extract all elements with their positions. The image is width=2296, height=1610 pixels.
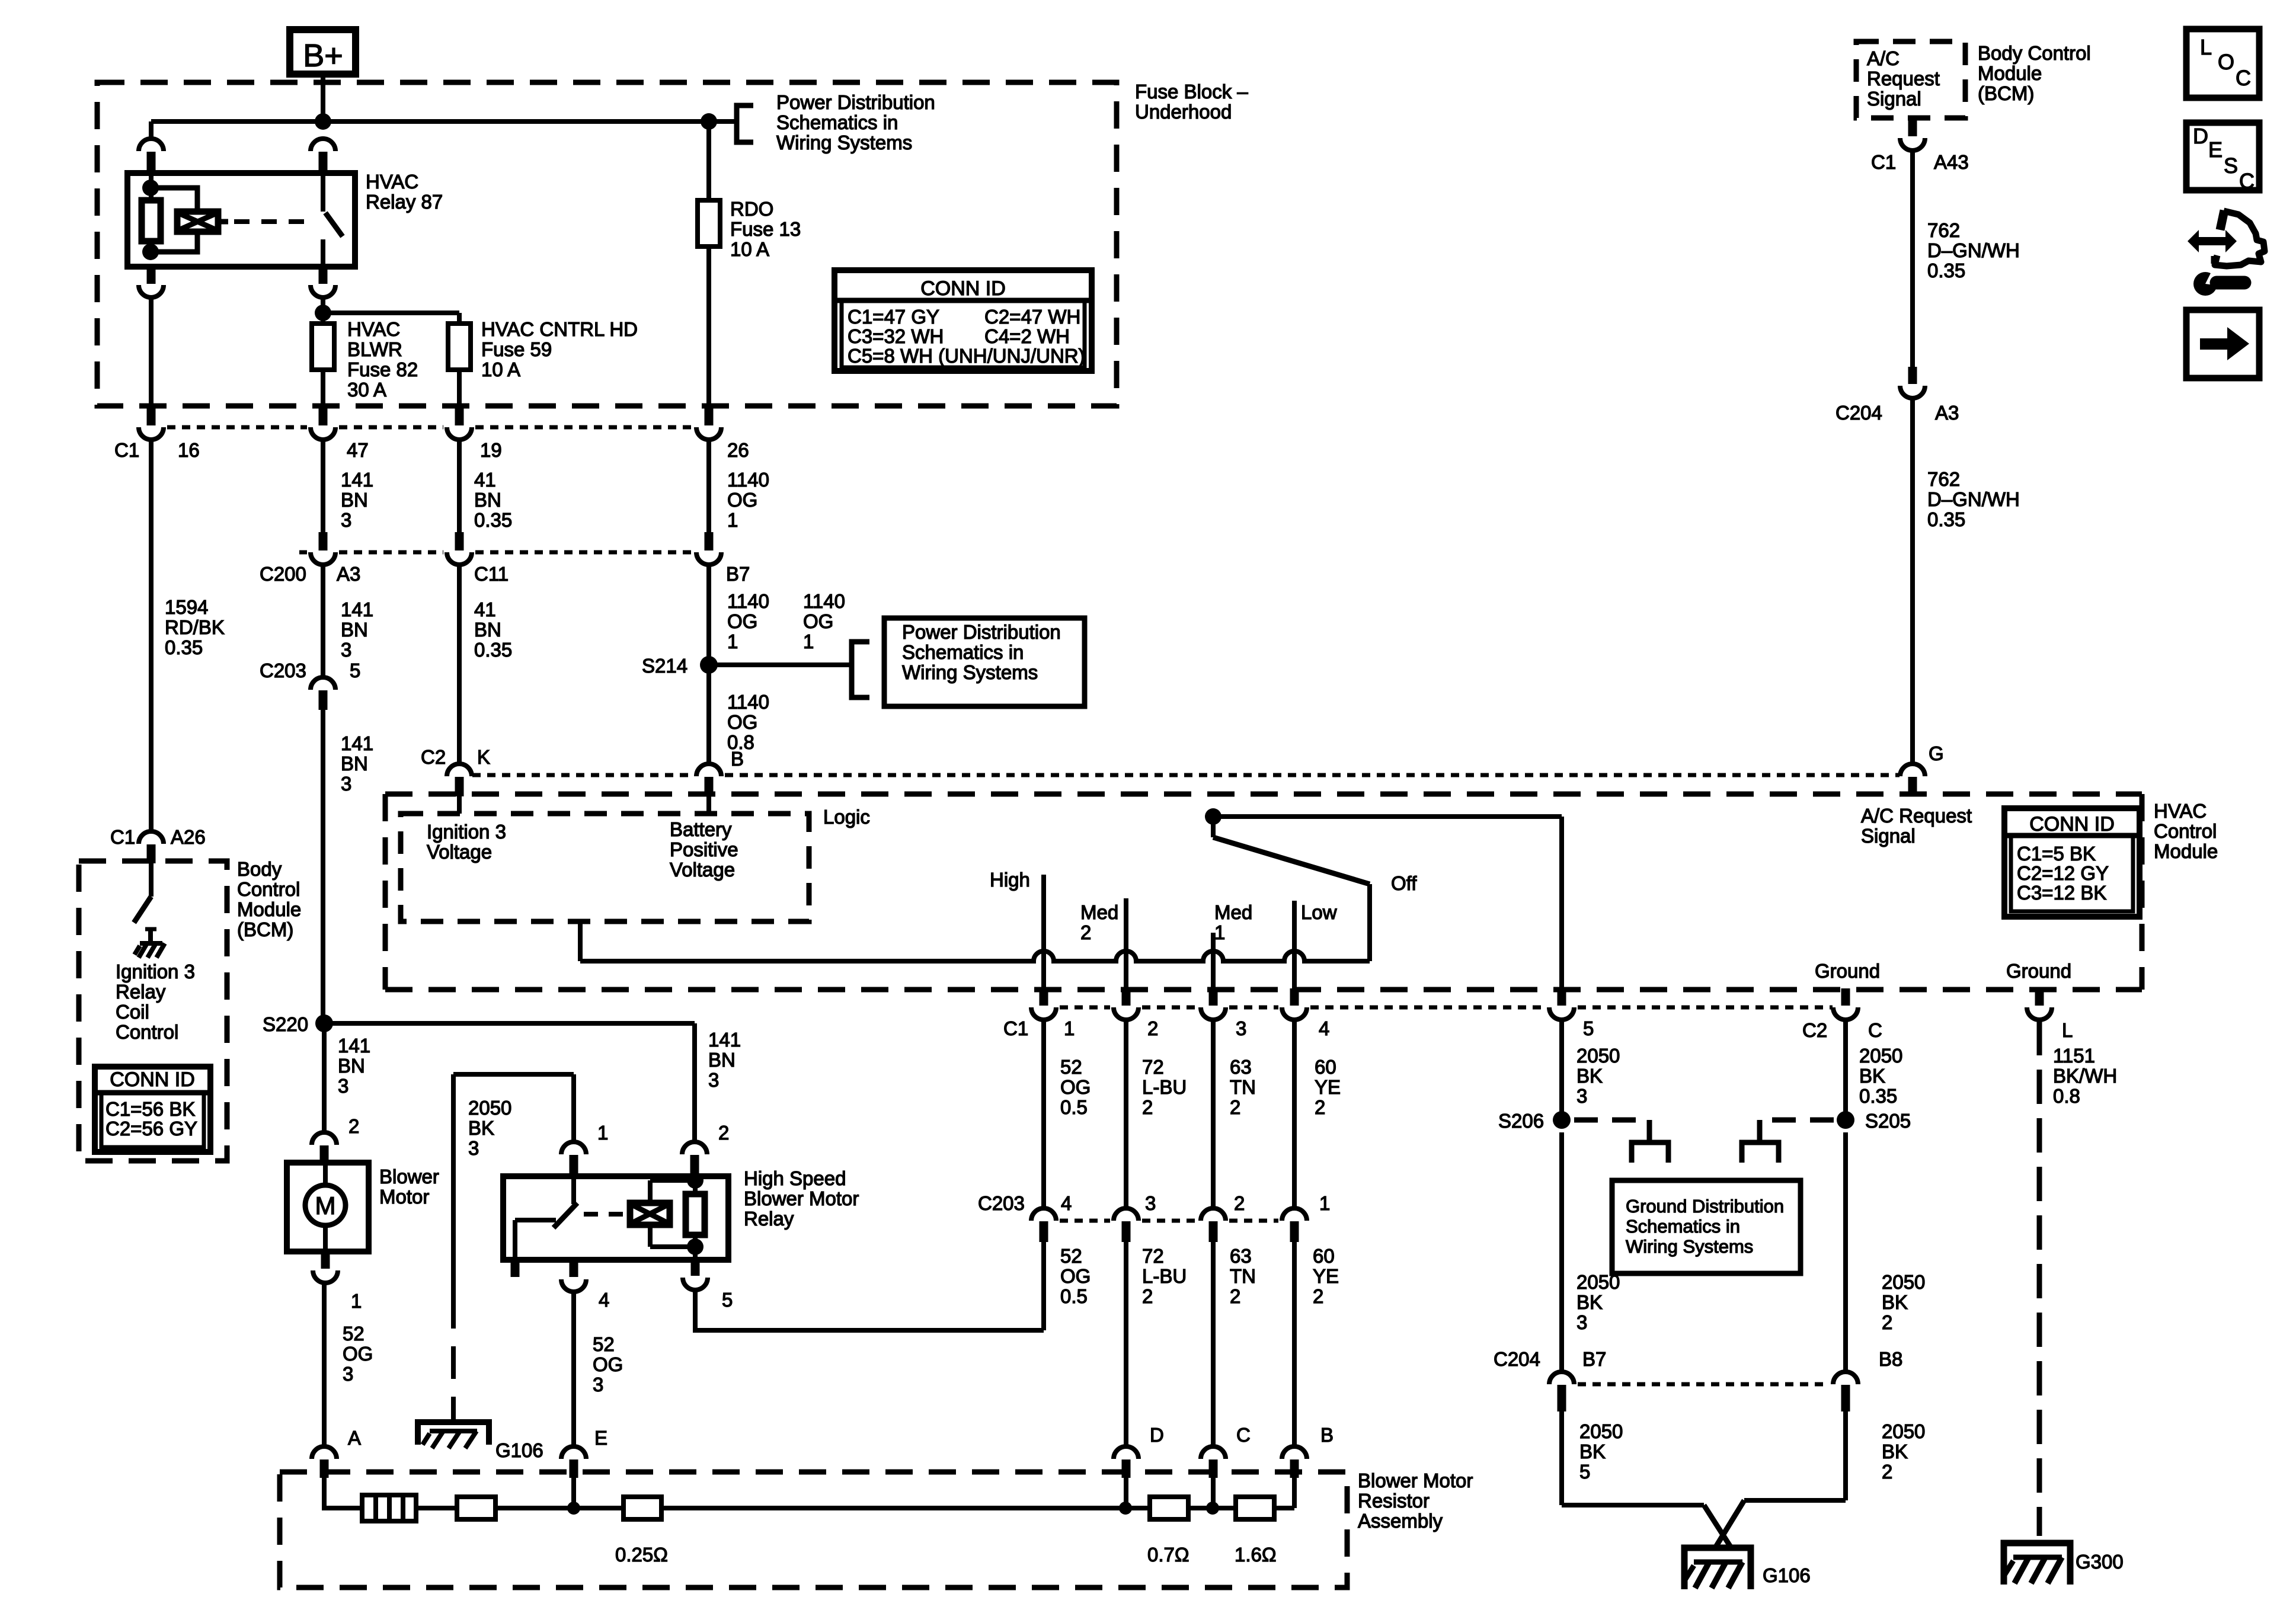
svg-text:C11: C11 (474, 563, 509, 585)
svg-text:1140: 1140 (727, 469, 769, 491)
svg-text:3: 3 (708, 1069, 719, 1091)
svg-text:Ground: Ground (1815, 960, 1880, 982)
svg-text:C2=12 GY: C2=12 GY (2017, 862, 2109, 884)
svg-text:2050: 2050 (1576, 1271, 1620, 1293)
svg-text:Fuse 59: Fuse 59 (481, 338, 552, 360)
svg-text:Signal: Signal (1861, 825, 1916, 847)
svg-text:A26: A26 (171, 826, 206, 848)
svg-text:C2=56 GY: C2=56 GY (105, 1118, 197, 1140)
svg-text:A3: A3 (1935, 402, 1959, 424)
svg-text:1: 1 (803, 630, 814, 652)
svg-text:Coil: Coil (116, 1001, 149, 1023)
svg-text:HVAC: HVAC (347, 318, 400, 340)
svg-text:L-BU: L-BU (1142, 1265, 1187, 1287)
svg-text:HVAC CNTRL HD: HVAC CNTRL HD (481, 318, 638, 340)
svg-text:72: 72 (1142, 1245, 1164, 1267)
svg-text:C2=47 WH: C2=47 WH (984, 306, 1080, 328)
svg-text:C1=56 BK: C1=56 BK (105, 1098, 195, 1120)
svg-text:10 A: 10 A (730, 238, 769, 260)
svg-text:C5=8 WH (UNH/UNJ/UNR): C5=8 WH (UNH/UNJ/UNR) (848, 345, 1085, 367)
svg-text:C3=32 WH: C3=32 WH (848, 325, 944, 347)
svg-text:C1=5 BK: C1=5 BK (2017, 843, 2096, 865)
svg-text:O: O (2218, 50, 2234, 74)
svg-text:Voltage: Voltage (427, 841, 492, 863)
svg-text:Body: Body (237, 858, 282, 880)
svg-text:S220: S220 (263, 1013, 308, 1035)
svg-text:C203: C203 (260, 660, 306, 681)
svg-text:(BCM): (BCM) (1978, 82, 2034, 104)
svg-text:Ignition 3: Ignition 3 (116, 961, 195, 982)
svg-text:Module: Module (2154, 840, 2218, 862)
svg-text:C1: C1 (114, 439, 139, 461)
svg-text:30 A: 30 A (347, 379, 386, 401)
svg-text:OG: OG (727, 711, 757, 733)
svg-text:D: D (2193, 124, 2208, 148)
svg-text:BN: BN (341, 489, 368, 511)
svg-text:CONN ID: CONN ID (2029, 813, 2115, 836)
svg-text:C203: C203 (978, 1192, 1025, 1214)
svg-text:BN: BN (341, 619, 368, 641)
svg-text:141: 141 (708, 1029, 741, 1051)
svg-text:5: 5 (1579, 1461, 1590, 1483)
svg-text:C4=2 WH: C4=2 WH (984, 325, 1070, 347)
svg-text:72: 72 (1142, 1056, 1164, 1078)
svg-text:60: 60 (1313, 1245, 1335, 1267)
svg-text:OG: OG (593, 1353, 623, 1375)
svg-text:141: 141 (338, 1035, 370, 1057)
svg-text:Power Distribution: Power Distribution (776, 91, 935, 113)
svg-text:5: 5 (722, 1289, 733, 1311)
svg-text:CONN ID: CONN ID (110, 1068, 195, 1091)
svg-text:Fuse 13: Fuse 13 (730, 218, 801, 240)
svg-text:2: 2 (348, 1115, 359, 1137)
svg-text:Wiring Systems: Wiring Systems (1626, 1236, 1753, 1257)
svg-text:S214: S214 (642, 655, 687, 677)
svg-text:3: 3 (593, 1374, 603, 1395)
svg-text:0.5: 0.5 (1060, 1096, 1088, 1118)
svg-text:BK: BK (1576, 1065, 1603, 1087)
svg-text:2: 2 (1315, 1096, 1325, 1118)
svg-text:762: 762 (1927, 468, 1960, 490)
svg-text:S205: S205 (1865, 1110, 1911, 1132)
svg-text:Schematics in: Schematics in (1626, 1216, 1740, 1237)
svg-text:2050: 2050 (1579, 1420, 1623, 1442)
svg-text:2050: 2050 (468, 1097, 511, 1119)
svg-text:0.35: 0.35 (1927, 260, 1965, 281)
svg-text:BN: BN (474, 489, 501, 511)
svg-text:BLWR: BLWR (347, 338, 402, 360)
svg-text:47: 47 (347, 439, 369, 461)
svg-text:Med: Med (1080, 901, 1118, 923)
svg-text:1: 1 (1319, 1192, 1330, 1214)
svg-text:2: 2 (1147, 1017, 1158, 1039)
svg-text:63: 63 (1230, 1056, 1252, 1078)
svg-text:OG: OG (727, 610, 757, 632)
svg-text:Module: Module (237, 898, 301, 920)
svg-text:Control: Control (237, 878, 300, 900)
svg-text:RDO: RDO (730, 198, 773, 220)
svg-text:2: 2 (718, 1122, 729, 1144)
svg-text:52: 52 (1060, 1056, 1082, 1078)
svg-text:1: 1 (597, 1122, 608, 1144)
svg-text:Blower: Blower (379, 1166, 439, 1188)
svg-text:41: 41 (474, 598, 496, 620)
svg-text:B8: B8 (1879, 1348, 1902, 1370)
svg-text:16: 16 (178, 439, 200, 461)
svg-text:52: 52 (343, 1323, 364, 1345)
svg-text:Schematics in: Schematics in (902, 641, 1024, 663)
svg-text:OG: OG (343, 1343, 373, 1365)
svg-text:0.35: 0.35 (165, 636, 203, 658)
svg-text:A/C Request: A/C Request (1861, 805, 1972, 827)
svg-text:C: C (2239, 169, 2255, 193)
svg-text:B7: B7 (1582, 1348, 1606, 1370)
svg-text:RD/BK: RD/BK (165, 616, 225, 638)
svg-text:2: 2 (1882, 1461, 1892, 1483)
svg-text:Voltage: Voltage (670, 859, 735, 881)
svg-text:1594: 1594 (165, 596, 208, 618)
svg-text:HVAC: HVAC (2154, 800, 2207, 822)
svg-text:OG: OG (1060, 1265, 1091, 1287)
svg-text:2: 2 (1230, 1096, 1240, 1118)
svg-text:A3: A3 (337, 563, 360, 585)
svg-text:3: 3 (1576, 1085, 1587, 1107)
svg-text:BK: BK (1576, 1291, 1603, 1313)
svg-text:S206: S206 (1498, 1110, 1544, 1132)
svg-text:2: 2 (1142, 1096, 1153, 1118)
svg-text:Body Control: Body Control (1978, 42, 2091, 64)
svg-text:D: D (1150, 1424, 1164, 1446)
svg-text:Request: Request (1867, 68, 1940, 89)
svg-text:Ground Distribution: Ground Distribution (1626, 1196, 1784, 1217)
svg-text:2: 2 (1080, 921, 1091, 943)
svg-text:4: 4 (1319, 1017, 1329, 1039)
svg-text:2050: 2050 (1882, 1271, 1925, 1293)
svg-text:3: 3 (341, 639, 351, 661)
svg-text:OG: OG (803, 610, 833, 632)
svg-text:S: S (2224, 153, 2238, 178)
svg-text:Wiring Systems: Wiring Systems (776, 132, 912, 153)
svg-text:OG: OG (727, 489, 757, 511)
svg-text:Fuse Block –: Fuse Block – (1135, 81, 1248, 103)
svg-text:D–GN/WH: D–GN/WH (1927, 239, 2020, 261)
svg-text:G: G (1929, 742, 1944, 764)
svg-text:63: 63 (1230, 1245, 1252, 1267)
svg-text:Assembly: Assembly (1358, 1510, 1443, 1532)
svg-text:0.25Ω: 0.25Ω (615, 1544, 668, 1566)
svg-text:Wiring Systems: Wiring Systems (902, 661, 1038, 683)
svg-text:1.6Ω: 1.6Ω (1235, 1544, 1277, 1566)
svg-text:A43: A43 (1934, 151, 1969, 173)
svg-text:Resistor: Resistor (1358, 1490, 1430, 1512)
svg-text:Relay: Relay (744, 1208, 794, 1230)
svg-text:C1: C1 (1003, 1017, 1028, 1039)
svg-text:1: 1 (1064, 1017, 1075, 1039)
svg-text:B: B (731, 748, 744, 770)
svg-text:C2: C2 (1802, 1019, 1827, 1041)
svg-text:1: 1 (727, 630, 738, 652)
svg-text:3: 3 (1236, 1017, 1246, 1039)
svg-text:4: 4 (1061, 1192, 1072, 1214)
svg-text:2050: 2050 (1882, 1420, 1925, 1442)
svg-text:Module: Module (1978, 62, 2042, 84)
svg-text:BN: BN (338, 1055, 365, 1077)
svg-text:1140: 1140 (727, 691, 769, 713)
svg-text:10 A: 10 A (481, 359, 520, 380)
svg-text:2: 2 (1142, 1285, 1153, 1307)
svg-text:C1=47 GY: C1=47 GY (848, 306, 939, 328)
svg-text:C1: C1 (1871, 151, 1896, 173)
svg-text:TN: TN (1230, 1265, 1256, 1287)
svg-text:Power Distribution: Power Distribution (902, 621, 1061, 643)
svg-text:3: 3 (468, 1137, 479, 1159)
svg-text:BK: BK (1882, 1441, 1908, 1462)
svg-text:Logic: Logic (823, 806, 870, 828)
svg-text:G106: G106 (1763, 1564, 1811, 1586)
svg-text:141: 141 (341, 732, 373, 754)
svg-text:C: C (2236, 66, 2251, 90)
svg-text:Blower Motor: Blower Motor (1358, 1470, 1473, 1491)
svg-text:L: L (2062, 1019, 2073, 1041)
svg-text:3: 3 (1576, 1311, 1587, 1333)
svg-text:Relay 87: Relay 87 (366, 191, 443, 213)
svg-text:5: 5 (1583, 1017, 1594, 1039)
svg-text:3: 3 (341, 773, 351, 795)
svg-text:141: 141 (341, 598, 373, 620)
svg-text:HVAC: HVAC (366, 171, 418, 193)
svg-text:A/C: A/C (1867, 47, 1900, 69)
svg-text:52: 52 (593, 1333, 615, 1355)
svg-text:OG: OG (1060, 1076, 1091, 1098)
svg-text:C204: C204 (1835, 402, 1882, 424)
svg-text:CONN ID: CONN ID (920, 277, 1006, 300)
svg-text:41: 41 (474, 469, 496, 491)
svg-text:C204: C204 (1494, 1348, 1540, 1370)
svg-text:L-BU: L-BU (1142, 1076, 1187, 1098)
svg-text:1: 1 (1214, 921, 1225, 943)
svg-text:BK: BK (1579, 1441, 1606, 1462)
svg-text:E: E (2208, 137, 2223, 162)
svg-text:1: 1 (351, 1290, 362, 1312)
svg-text:C2: C2 (421, 746, 446, 768)
svg-text:BK: BK (1859, 1065, 1885, 1087)
svg-text:High: High (990, 869, 1030, 891)
svg-text:3: 3 (1145, 1192, 1156, 1214)
svg-text:Battery: Battery (670, 818, 732, 840)
svg-text:2050: 2050 (1859, 1045, 1902, 1067)
svg-text:0.7Ω: 0.7Ω (1147, 1544, 1189, 1566)
svg-text:3: 3 (343, 1363, 353, 1385)
svg-text:0.35: 0.35 (1859, 1085, 1897, 1107)
svg-text:B7: B7 (726, 563, 750, 585)
svg-text:D–GN/WH: D–GN/WH (1927, 488, 2020, 510)
svg-text:762: 762 (1927, 219, 1960, 241)
svg-text:2: 2 (1234, 1192, 1245, 1214)
svg-text:B+: B+ (303, 38, 343, 73)
svg-text:Schematics in: Schematics in (776, 111, 898, 133)
svg-text:TN: TN (1230, 1076, 1256, 1098)
svg-text:Fuse 82: Fuse 82 (347, 359, 418, 380)
svg-text:YE: YE (1315, 1076, 1341, 1098)
svg-text:1: 1 (727, 509, 738, 531)
svg-text:YE: YE (1313, 1265, 1339, 1287)
svg-text:0.5: 0.5 (1060, 1285, 1088, 1307)
svg-text:C: C (1236, 1424, 1251, 1446)
svg-text:Off: Off (1391, 872, 1417, 894)
svg-text:Underhood: Underhood (1135, 101, 1232, 123)
svg-text:3: 3 (338, 1075, 348, 1097)
svg-text:60: 60 (1315, 1056, 1336, 1078)
svg-text:141: 141 (341, 469, 373, 491)
svg-text:L: L (2200, 35, 2212, 59)
svg-text:A: A (348, 1427, 361, 1449)
svg-text:(BCM): (BCM) (237, 918, 293, 940)
svg-text:52: 52 (1060, 1245, 1082, 1267)
svg-text:Ignition 3: Ignition 3 (427, 821, 506, 843)
svg-text:19: 19 (480, 439, 502, 461)
svg-text:1151: 1151 (2053, 1045, 2095, 1067)
svg-text:BK: BK (468, 1117, 494, 1139)
svg-text:E: E (594, 1427, 607, 1449)
svg-text:2: 2 (1882, 1311, 1892, 1333)
svg-text:M: M (315, 1192, 336, 1219)
svg-text:0.8: 0.8 (2053, 1085, 2080, 1107)
svg-text:BN: BN (341, 753, 368, 774)
svg-text:High Speed: High Speed (744, 1167, 846, 1189)
svg-text:C200: C200 (260, 563, 306, 585)
svg-text:G106: G106 (495, 1439, 543, 1461)
svg-text:0.35: 0.35 (474, 639, 512, 661)
svg-text:2: 2 (1313, 1285, 1323, 1307)
svg-text:1140: 1140 (803, 590, 845, 612)
svg-text:5: 5 (350, 660, 360, 681)
svg-text:BN: BN (708, 1049, 736, 1071)
svg-text:2050: 2050 (1576, 1045, 1620, 1067)
svg-text:4: 4 (599, 1289, 609, 1311)
svg-text:C: C (1868, 1019, 1882, 1041)
svg-text:0.35: 0.35 (474, 509, 512, 531)
svg-text:Signal: Signal (1867, 88, 1921, 110)
svg-text:2: 2 (1230, 1285, 1240, 1307)
svg-text:Blower Motor: Blower Motor (744, 1188, 859, 1209)
svg-text:1140: 1140 (727, 590, 769, 612)
svg-text:0.35: 0.35 (1927, 508, 1965, 530)
svg-text:Ground: Ground (2006, 960, 2071, 982)
svg-text:Motor: Motor (379, 1186, 429, 1208)
svg-text:Control: Control (2154, 820, 2217, 842)
svg-text:Positive: Positive (670, 838, 738, 860)
svg-text:Med: Med (1214, 901, 1252, 923)
svg-text:Control: Control (116, 1021, 178, 1043)
svg-text:Low: Low (1301, 901, 1337, 923)
svg-text:Relay: Relay (116, 981, 166, 1003)
svg-text:26: 26 (727, 439, 749, 461)
svg-text:C3=12 BK: C3=12 BK (2017, 882, 2106, 904)
svg-text:B: B (1320, 1424, 1334, 1446)
svg-text:G300: G300 (2076, 1551, 2124, 1573)
svg-text:K: K (477, 746, 490, 768)
svg-text:C1: C1 (110, 826, 135, 848)
svg-text:BK: BK (1882, 1291, 1908, 1313)
svg-text:3: 3 (341, 509, 351, 531)
svg-text:BN: BN (474, 619, 501, 641)
svg-text:BK/WH: BK/WH (2053, 1065, 2117, 1087)
